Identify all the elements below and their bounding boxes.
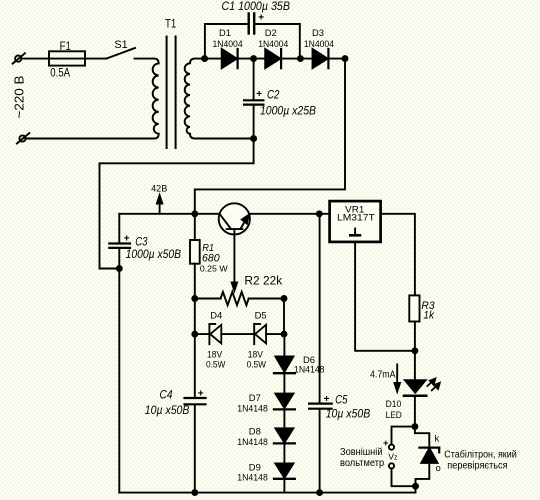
wire to zener under test bbox=[415, 427, 429, 447]
svg-text:LM317T: LM317T bbox=[337, 213, 375, 224]
wire LED to branch node bbox=[414, 396, 416, 427]
svg-text:~220 В: ~220 В bbox=[13, 76, 27, 119]
wire bottom rail bbox=[119, 486, 415, 492]
wire terminal to fuse bbox=[22, 58, 50, 60]
fuse F1 bbox=[49, 51, 85, 65]
wire rail transistor to VR1 bbox=[250, 213, 330, 215]
capacitor C3 bbox=[109, 214, 130, 493]
svg-text:C2: C2 bbox=[267, 87, 280, 101]
svg-text:1N4148: 1N4148 bbox=[294, 364, 325, 375]
node C3 bottom bbox=[117, 266, 122, 271]
resistor R3 bbox=[409, 295, 419, 350]
svg-text:D4: D4 bbox=[210, 309, 222, 320]
svg-text:C1 1000µ 35В: C1 1000µ 35В bbox=[222, 0, 291, 13]
svg-text:1N4148: 1N4148 bbox=[237, 472, 267, 483]
svg-text:1000µ x50В: 1000µ x50В bbox=[126, 247, 182, 261]
svg-text:D10: D10 bbox=[386, 398, 402, 409]
svg-text:1k: 1k bbox=[423, 310, 434, 322]
node top right bbox=[343, 56, 348, 61]
wire D1 to D2 bbox=[238, 58, 266, 60]
wire secondary bottom to C2 node bbox=[195, 138, 254, 140]
wire R2 left down bbox=[194, 299, 196, 335]
node C2 bottom junction bbox=[251, 136, 256, 141]
svg-text:1N4004: 1N4004 bbox=[258, 38, 288, 49]
svg-text:1N4148: 1N4148 bbox=[237, 436, 267, 447]
svg-text:D3: D3 bbox=[312, 27, 324, 38]
svg-text:+: + bbox=[124, 233, 130, 244]
wire zener anode return bbox=[416, 463, 430, 486]
svg-text:C4: C4 bbox=[160, 387, 173, 401]
diode D1 bbox=[222, 49, 238, 68]
svg-text:0.5W: 0.5W bbox=[247, 358, 267, 369]
svg-text:1000µ x25В: 1000µ x25В bbox=[260, 103, 316, 117]
wire secondary top to node bbox=[195, 58, 222, 60]
svg-text:1N4004: 1N4004 bbox=[304, 38, 334, 49]
wire R2 right down bbox=[283, 299, 285, 335]
svg-text:10µ x50В: 10µ x50В bbox=[326, 407, 371, 421]
svg-text:10µ x50В: 10µ x50В bbox=[145, 403, 190, 417]
wire to voltmeter plus terminal bbox=[392, 427, 415, 445]
resistor R1 bbox=[190, 214, 200, 299]
svg-text:0.25 W: 0.25 W bbox=[200, 264, 228, 274]
node R2 left bbox=[192, 296, 197, 301]
capacitor C4 bbox=[185, 334, 206, 493]
diode D3 bbox=[313, 49, 329, 68]
svg-text:C5: C5 bbox=[335, 392, 348, 406]
svg-text:0.5A: 0.5A bbox=[50, 66, 70, 80]
voltmeter terminal plus bbox=[389, 445, 394, 450]
diode D7 bbox=[274, 394, 295, 410]
wire switch to primary bbox=[135, 58, 155, 60]
wire node to LED bbox=[414, 351, 416, 380]
node LED bottom branch bbox=[412, 424, 417, 429]
regulator VR1 box bbox=[330, 201, 381, 242]
svg-text:+: + bbox=[258, 12, 264, 23]
resistor R2 (potentiometer) bbox=[195, 292, 284, 305]
svg-text:T1: T1 bbox=[165, 17, 177, 31]
wire rectifier output down bbox=[195, 59, 345, 214]
wire D9 to rail bbox=[283, 479, 285, 493]
node adjust R3 LED bbox=[412, 348, 417, 353]
zener D5 bbox=[254, 324, 284, 344]
wire transformer return bbox=[100, 139, 254, 269]
wire D5 node down to D6 bbox=[283, 334, 285, 356]
svg-text:F1: F1 bbox=[60, 39, 72, 53]
svg-text:LED: LED bbox=[386, 409, 402, 420]
LED D10 bbox=[404, 379, 440, 396]
svg-text:42В: 42В bbox=[151, 184, 167, 194]
voltmeter terminal minus bbox=[389, 463, 394, 468]
svg-text:+: + bbox=[198, 389, 204, 400]
svg-text:k: k bbox=[435, 434, 440, 445]
svg-text:+: + bbox=[324, 394, 330, 405]
wire bottom terminal to primary bbox=[26, 138, 154, 140]
svg-text:+: + bbox=[256, 89, 262, 100]
wire voltmeter return bbox=[392, 469, 416, 486]
wire D8 to D9 bbox=[283, 443, 285, 463]
svg-text:перевіряється: перевіряється bbox=[447, 461, 507, 472]
wire VR1 output bbox=[381, 214, 415, 296]
svg-text:вольтметр: вольтметр bbox=[340, 458, 385, 469]
node C4 bottom bbox=[192, 490, 197, 495]
node rail R1 bbox=[192, 211, 197, 216]
switch S1 bbox=[107, 48, 136, 59]
transformer T1 primary winding bbox=[153, 59, 159, 139]
node 42B arrow bbox=[157, 195, 162, 214]
svg-text:4.7mA: 4.7mA bbox=[370, 369, 396, 380]
node rail VR1 input / C5 bbox=[317, 211, 322, 216]
diode D6 bbox=[274, 356, 295, 373]
wire VR1 adjust bbox=[355, 242, 415, 351]
svg-text:o: o bbox=[436, 463, 441, 473]
wire base lead with wiper arrow bbox=[232, 229, 237, 291]
transistor Q1 bbox=[219, 203, 250, 234]
svg-text:S1: S1 bbox=[114, 39, 127, 51]
wire fuse to switch bbox=[85, 58, 107, 60]
wire D7 to D8 bbox=[283, 409, 285, 428]
node bottom right bbox=[413, 484, 418, 489]
diode D9 bbox=[274, 464, 295, 479]
wire main rail bbox=[119, 213, 218, 215]
node D4 left bbox=[192, 332, 197, 337]
node C5 bottom bbox=[317, 490, 322, 495]
node C1 left rail bbox=[251, 56, 256, 61]
input terminal bottom bbox=[17, 133, 29, 143]
zener D4 bbox=[195, 324, 254, 344]
svg-text:D8: D8 bbox=[249, 425, 261, 436]
wire D6 to D7 bbox=[283, 373, 285, 393]
wire D2 to D3 bbox=[281, 58, 312, 60]
node secondary top bbox=[202, 56, 207, 61]
svg-text:Зовнішній: Зовнішній bbox=[340, 447, 383, 458]
capacitor C2 bbox=[244, 59, 263, 139]
current arrow 4.7mA bbox=[394, 364, 400, 391]
diode D2 bbox=[265, 49, 281, 68]
node D5 right bbox=[282, 332, 287, 337]
node R2 right bbox=[282, 296, 287, 301]
transformer T1 core bbox=[167, 37, 176, 149]
svg-text:Стабілітрон, який: Стабілітрон, який bbox=[444, 448, 516, 460]
svg-text:D1: D1 bbox=[219, 27, 231, 38]
svg-text:D2: D2 bbox=[265, 27, 277, 38]
svg-text:1N4004: 1N4004 bbox=[213, 38, 243, 49]
node C1 right bbox=[298, 56, 303, 61]
capacitor C5 bbox=[309, 214, 332, 493]
wire D3 to right corner bbox=[328, 58, 345, 60]
transformer T1 secondary winding bbox=[185, 59, 195, 139]
svg-text:D5: D5 bbox=[255, 309, 267, 320]
capacitor C1 bbox=[205, 14, 300, 59]
svg-text:R2 22k: R2 22k bbox=[244, 275, 282, 287]
svg-text:0.5W: 0.5W bbox=[206, 358, 226, 369]
diode D8 bbox=[274, 428, 295, 443]
svg-text:1N4148: 1N4148 bbox=[237, 403, 267, 414]
zener under test bbox=[419, 448, 439, 463]
input terminal top bbox=[13, 53, 25, 63]
svg-text:+: + bbox=[383, 438, 389, 449]
